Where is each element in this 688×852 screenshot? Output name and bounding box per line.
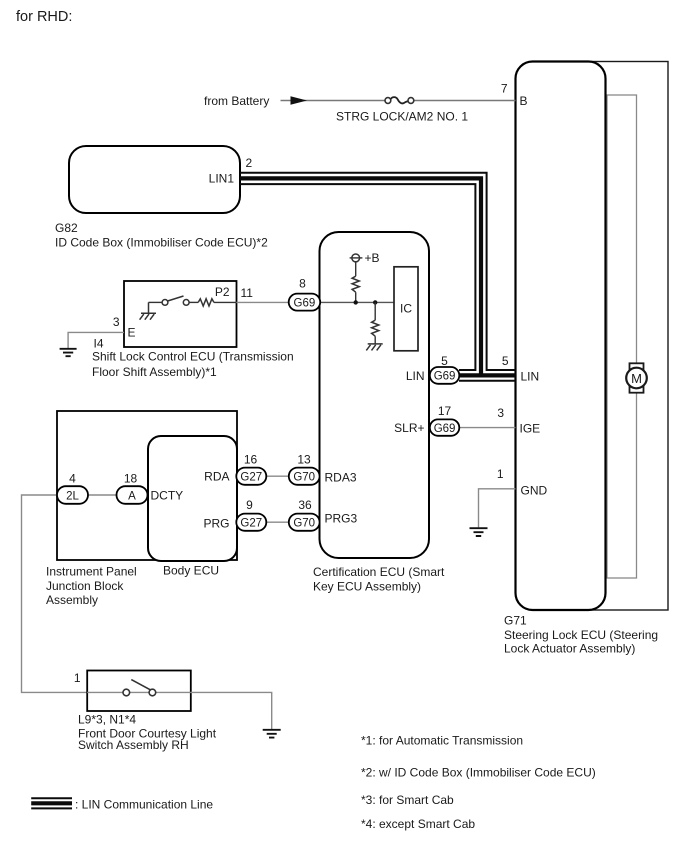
svg-text:LIN: LIN <box>521 370 540 384</box>
svg-text:LIN1: LIN1 <box>209 172 235 186</box>
wire +B down <box>355 262 357 276</box>
svg-text:7: 7 <box>501 82 508 96</box>
connector 2L <box>57 486 88 504</box>
svg-text:E: E <box>128 326 136 340</box>
svg-text:Instrument Panel: Instrument Panel <box>46 565 137 579</box>
instrument panel junction block box <box>57 411 237 560</box>
svg-text:G70: G70 <box>293 517 315 529</box>
+B terminal <box>350 257 363 259</box>
connector G69 (pin 8, P) <box>289 294 321 311</box>
inner thin rectangle (motor circuit) <box>607 95 637 578</box>
connector G70 (PRG3) <box>289 514 320 531</box>
ground symbol (bars) for GND <box>470 528 488 536</box>
wire into 2L from courtesy switch <box>22 495 88 692</box>
svg-text:Shift Lock Control ECU (Transm: Shift Lock Control ECU (Transmission <box>92 350 294 364</box>
svg-text:G82: G82 <box>55 221 78 235</box>
connector G69 (pin 17, SLR+) <box>430 419 460 435</box>
svg-text:13: 13 <box>297 453 311 467</box>
svg-text:SLR+: SLR+ <box>394 421 424 435</box>
wire switch to ground <box>191 692 272 729</box>
wire shift box to G69 <box>237 301 289 303</box>
junction dot <box>373 300 377 304</box>
svg-text:I4: I4 <box>94 337 104 351</box>
svg-text:M: M <box>631 371 642 386</box>
ground symbol (bars) for E <box>60 349 77 356</box>
svg-text:IC: IC <box>400 302 412 316</box>
svg-text:Assembly: Assembly <box>46 593 98 607</box>
svg-text:*3: for Smart Cab: *3: for Smart Cab <box>361 793 454 807</box>
svg-text:16: 16 <box>244 453 258 467</box>
wire 2L to A <box>88 494 117 496</box>
svg-text:LIN: LIN <box>406 369 425 383</box>
svg-text:1: 1 <box>74 671 81 685</box>
svg-text:for RHD:: for RHD: <box>16 9 72 25</box>
arrow from battery <box>291 96 308 105</box>
svg-text:Body ECU: Body ECU <box>163 564 219 578</box>
svg-text:B: B <box>520 94 528 108</box>
svg-text:G27: G27 <box>240 471 262 483</box>
LIN thin line lower bottom <box>459 380 516 382</box>
body ECU box <box>148 436 237 561</box>
steering lock ECU box G71 <box>516 62 606 611</box>
svg-text:PRG: PRG <box>203 517 229 531</box>
svg-text:5: 5 <box>441 354 448 368</box>
connector G70 (RDA3) <box>289 468 320 485</box>
svg-text:8: 8 <box>299 277 306 291</box>
svg-text:3: 3 <box>113 315 120 329</box>
resistor pull-down <box>372 320 379 336</box>
courtesy light switch box <box>87 671 191 712</box>
fuse STRG LOCK/AM2 NO. 1 <box>391 97 408 103</box>
svg-text:G70: G70 <box>293 471 315 483</box>
svg-text:*2: w/ ID Code Box (Immobilise: *2: w/ ID Code Box (Immobiliser Code ECU… <box>361 766 596 780</box>
ground symbol (bars) for switch <box>263 730 281 738</box>
LIN communication line (triple) from G82 to junction <box>240 178 481 375</box>
svg-text:from Battery: from Battery <box>204 94 269 108</box>
svg-text:G69: G69 <box>294 297 316 309</box>
svg-text:36: 36 <box>298 498 312 512</box>
wire resistor to box edge <box>214 301 237 303</box>
svg-text:G71: G71 <box>504 614 527 628</box>
LIN triple line lower horizontal thick <box>459 373 516 377</box>
shift lock control ECU box <box>124 281 237 347</box>
svg-text:9: 9 <box>246 498 253 512</box>
ID code box G82 <box>69 146 240 213</box>
connector G27 (PRG) <box>236 514 266 531</box>
svg-text:*4: except Smart Cab: *4: except Smart Cab <box>361 817 475 831</box>
wire to resistor <box>189 301 198 303</box>
svg-text:GND: GND <box>521 484 548 498</box>
svg-text:2L: 2L <box>66 490 79 502</box>
svg-text:IGE: IGE <box>520 422 541 436</box>
wire through switch box <box>87 691 191 693</box>
outer rectangle of steering lock actuator (behind G71 box) <box>558 62 668 611</box>
switch contact left <box>123 689 130 696</box>
svg-text:2: 2 <box>246 156 253 170</box>
svg-text:G27: G27 <box>240 517 262 529</box>
svg-text:DCTY: DCTY <box>151 489 184 503</box>
switch contact left <box>162 300 168 306</box>
wire E to ground <box>68 332 124 348</box>
svg-text:PRG3: PRG3 <box>325 512 358 526</box>
wire SLR+ to IGE <box>459 427 515 429</box>
wire RDA G27 to G70 <box>266 475 289 477</box>
svg-text:17: 17 <box>438 404 452 418</box>
svg-text:RDA3: RDA3 <box>325 471 357 485</box>
svg-text:3: 3 <box>497 406 504 420</box>
svg-text:RDA: RDA <box>204 470 229 484</box>
switch contact right <box>149 689 156 696</box>
svg-text:Junction Block: Junction Block <box>46 579 124 593</box>
switch blade <box>168 296 184 301</box>
motor M terminal bottom <box>630 387 644 393</box>
junction dot <box>354 300 358 304</box>
svg-text:L9*3, N1*4: L9*3, N1*4 <box>78 713 136 727</box>
motor M <box>626 368 647 389</box>
switch contact right <box>183 300 189 306</box>
svg-text:G69: G69 <box>434 423 456 435</box>
svg-text:+B: +B <box>365 251 380 265</box>
svg-text:A: A <box>128 490 136 502</box>
LIN thin line outer bottom <box>240 184 475 370</box>
svg-text:ID Code Box (Immobiliser Code: ID Code Box (Immobiliser Code ECU)*2 <box>55 236 268 250</box>
IC block U1 <box>394 267 418 351</box>
connector G27 (RDA) <box>236 468 266 485</box>
wire PRG G27 to G70 <box>266 521 289 523</box>
LIN legend symbol <box>31 797 72 799</box>
svg-text:Certification ECU (Smart: Certification ECU (Smart <box>313 565 445 579</box>
svg-text:11: 11 <box>241 286 254 300</box>
connector A <box>117 486 148 504</box>
resistor pull-up <box>352 276 359 292</box>
svg-text:Lock Actuator Assembly): Lock Actuator Assembly) <box>504 642 635 656</box>
wire G69 to IC node <box>320 301 394 303</box>
motor M terminal top <box>630 363 644 369</box>
svg-text:*1: for Automatic Transmission: *1: for Automatic Transmission <box>361 734 523 748</box>
svg-text:P2: P2 <box>215 285 230 299</box>
svg-text:Steering Lock ECU (Steering: Steering Lock ECU (Steering <box>504 628 658 642</box>
svg-text:Floor Shift Assembly)*1: Floor Shift Assembly)*1 <box>92 365 217 379</box>
resistor in shift box <box>198 299 214 306</box>
svg-text:4: 4 <box>69 472 76 486</box>
svg-text:18: 18 <box>124 472 138 486</box>
wire GND to ground <box>479 489 516 528</box>
svg-text:1: 1 <box>497 467 504 481</box>
wire down to pull-down resistor <box>374 302 376 320</box>
svg-text:Switch Assembly RH: Switch Assembly RH <box>78 738 189 752</box>
svg-text:Key ECU Assembly): Key ECU Assembly) <box>313 580 421 594</box>
internal ground (hatched) in shift box <box>141 302 156 313</box>
wire from battery <box>281 100 386 102</box>
internal ground (hatched) in cert box <box>368 343 383 345</box>
connector G69 (pin 5, LIN) <box>430 367 460 384</box>
wire to switch <box>149 301 163 303</box>
svg-text:: LIN Communication Line: : LIN Communication Line <box>75 798 213 812</box>
svg-text:5: 5 <box>502 354 509 368</box>
svg-text:G69: G69 <box>434 371 456 383</box>
svg-text:STRG LOCK/AM2 NO. 1: STRG LOCK/AM2 NO. 1 <box>336 110 468 124</box>
LIN thin line outer top <box>240 173 516 370</box>
certification ECU box <box>320 232 430 558</box>
switch blade <box>131 680 150 690</box>
